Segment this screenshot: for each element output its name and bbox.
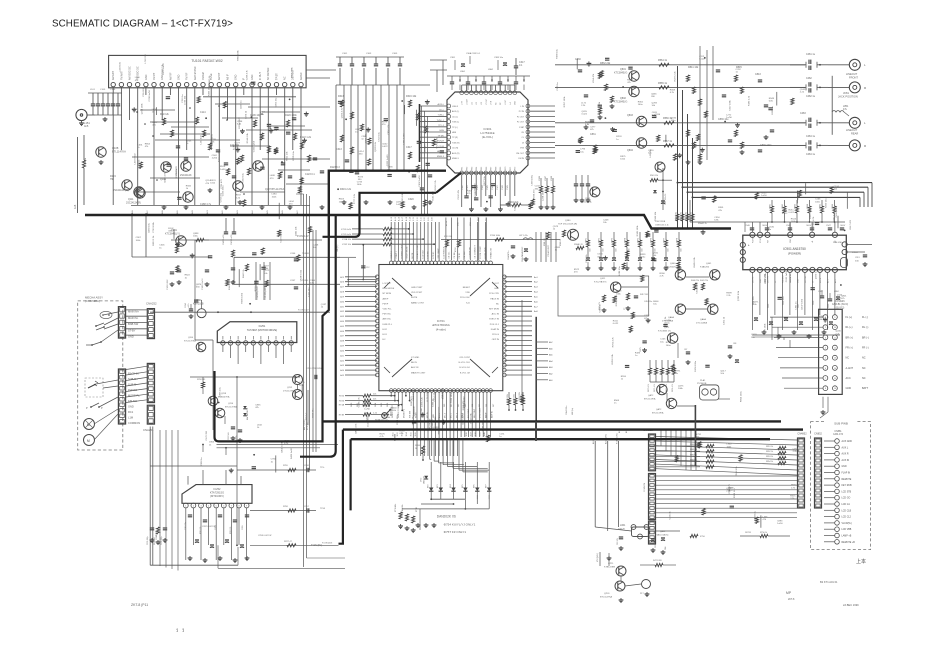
resistor group R86x <box>648 444 714 468</box>
svg-text:C?: C? <box>624 308 626 310</box>
wire left vertical bus <box>296 194 345 567</box>
bus wire x350 drop <box>350 439 352 510</box>
texture left mid 2 <box>208 231 327 309</box>
labels C301 row <box>342 53 398 55</box>
svg-text:L655 1n: L655 1n <box>650 149 652 158</box>
svg-text:TUN-L: TUN-L <box>438 115 445 117</box>
svg-text:367: 367 <box>493 404 495 407</box>
connector CN852 label <box>814 433 822 436</box>
bus wire x343 drop <box>339 430 343 544</box>
svg-text:1: 1 <box>222 343 223 345</box>
svg-text:STAT: STAT <box>519 126 525 129</box>
svg-text:L COM: L COM <box>466 99 468 105</box>
svg-text:COMMON: COMMON <box>644 483 646 492</box>
svg-text:C298 4.7k: C298 4.7k <box>247 69 249 80</box>
svg-text:QA72: QA72 <box>656 408 662 411</box>
svg-text:R978: R978 <box>677 238 679 243</box>
label MP <box>786 591 795 601</box>
svg-text:2SC2412K: 2SC2412K <box>180 174 192 177</box>
svg-text:R564 1k: R564 1k <box>658 59 668 62</box>
cluster left of R75x <box>650 162 707 226</box>
svg-text:GND: GND <box>760 278 762 283</box>
svg-text:361: 361 <box>451 404 453 407</box>
svg-text:AL 1: AL 1 <box>826 279 829 283</box>
label P-ON <box>311 544 322 547</box>
svg-text:GND: GND <box>494 288 499 290</box>
svg-text:R973: R973 <box>612 238 614 243</box>
svg-text:Q400: Q400 <box>670 263 676 265</box>
svg-text:C436 1u/50: C436 1u/50 <box>836 205 838 217</box>
svg-text:Q204: Q204 <box>188 337 194 339</box>
label uploads <box>856 558 866 565</box>
svg-text:Q258: Q258 <box>221 393 227 395</box>
tuner TU101 pin labels <box>112 66 303 80</box>
svg-text:C934 100u: C934 100u <box>451 392 453 403</box>
svg-text:K755 6x2k: K755 6x2k <box>341 229 352 231</box>
svg-text:C182 0.022: C182 0.022 <box>167 279 169 290</box>
svg-text:R971: R971 <box>586 238 588 243</box>
bus wire left step <box>215 237 329 442</box>
svg-text:RT3B: RT3B <box>416 506 418 512</box>
labels tuner net names <box>131 209 299 214</box>
svg-text:C951 330: C951 330 <box>442 388 444 398</box>
svg-text:C301: C301 <box>342 53 348 55</box>
wire EVOL input risers <box>422 106 428 214</box>
svg-text:R122 1.2k: R122 1.2k <box>300 136 312 139</box>
svg-text:(MTR-DRV): (MTR-DRV) <box>210 494 224 498</box>
wire MCU left stubs <box>345 277 377 375</box>
svg-text:GND PORT: GND PORT <box>411 287 423 289</box>
svg-text:LT OUT: LT OUT <box>486 98 488 105</box>
svg-text:R120 100k: R120 100k <box>285 114 297 117</box>
svg-text:C980 2.2k: C980 2.2k <box>162 63 164 74</box>
svg-text:366: 366 <box>486 404 488 407</box>
svg-text:4: 4 <box>825 348 826 350</box>
svg-text:RT64 100k: RT64 100k <box>490 235 501 237</box>
ground antenna <box>79 121 84 126</box>
svg-text:C484 1u: C484 1u <box>806 135 816 138</box>
svg-text:SCHEMATIC DIAGRAM – 1<CT-FX71: SCHEMATIC DIAGRAM – 1<CT-FX719> <box>52 19 233 30</box>
svg-text:C482: C482 <box>806 77 812 80</box>
svg-text:Q401: Q401 <box>706 263 712 265</box>
svg-text:100u: 100u <box>638 104 644 106</box>
svg-text:DTA124 (BLK): DTA124 (BLK) <box>655 533 669 536</box>
svg-text:AA6: AA6 <box>549 347 553 350</box>
svg-text:C481 1u: C481 1u <box>806 53 816 56</box>
svg-text:R611 100k: R611 100k <box>291 66 293 77</box>
svg-text:ST-BY: ST-BY <box>760 237 762 243</box>
svg-text:RT9B 100k: RT9B 100k <box>507 394 509 403</box>
svg-text:C383 10u: C383 10u <box>494 57 504 59</box>
svg-text:M?4 (W5V): M?4 (W5V) <box>597 553 599 562</box>
svg-text:OFF LAMP: OFF LAMP <box>437 248 440 259</box>
capacitor group C87x <box>684 343 739 365</box>
svg-text:DR735: DR735 <box>745 532 751 534</box>
wire IC252 pin drops <box>186 508 247 560</box>
svg-text:R977: R977 <box>664 238 666 243</box>
svg-text:IC901 AN15750: IC901 AN15750 <box>783 247 806 251</box>
wire diode fanout staircase <box>430 441 490 488</box>
svg-text:3638: 3638 <box>475 432 477 436</box>
svg-text:KP5: KP5 <box>462 484 464 488</box>
svg-text:EO2: EO2 <box>383 329 388 331</box>
svg-text:RC5 TuT: RC5 TuT <box>306 412 308 420</box>
antenna filter labels <box>90 89 116 91</box>
svg-text:CE CL2: CE CL2 <box>464 251 466 259</box>
svg-text:NT MON: NT MON <box>383 293 392 295</box>
svg-text:R524 10k: R524 10k <box>736 466 738 476</box>
svg-text:AM IF: AM IF <box>383 297 389 300</box>
connector CAM-B outline <box>819 309 843 394</box>
connector CN4852 strip <box>798 438 805 508</box>
svg-text:C575 1u/50: C575 1u/50 <box>437 136 439 148</box>
svg-text:R227 47: R227 47 <box>284 541 293 543</box>
svg-text:R854 100u: R854 100u <box>741 391 743 402</box>
svg-text:E-VOL GO: E-VOL GO <box>460 367 471 369</box>
svg-text:P5TB61B: P5TB61B <box>697 383 707 385</box>
svg-text:R784: R784 <box>415 445 421 447</box>
transistor Q258 <box>208 393 230 406</box>
svg-text:TP-R: TP-R <box>320 508 326 510</box>
svg-text:AM ANT: AM ANT <box>112 71 115 80</box>
connector CN852 strip <box>815 438 822 508</box>
svg-text:VLCD(5v): VLCD(5v) <box>842 523 852 525</box>
svg-text:L1M: L1M <box>128 416 133 420</box>
transistor Q201 <box>165 229 186 246</box>
svg-text:C344 10k: C344 10k <box>655 211 657 221</box>
svg-text:CD-R: CD-R <box>439 146 445 148</box>
svg-text:+/47u: +/47u <box>188 303 190 308</box>
capacitor C204 <box>185 303 193 318</box>
capacitor texture right-top <box>578 70 774 152</box>
svg-text:R996 100k: R996 100k <box>242 292 244 303</box>
connector CN881 pins and labels <box>824 439 855 544</box>
wire tuner area rails <box>135 104 310 192</box>
svg-text:9: 9 <box>283 343 284 345</box>
svg-text:FM IF: FM IF <box>383 303 389 305</box>
svg-text:TP (R): TP (R) <box>452 137 458 139</box>
svg-text:R854 1k: R854 1k <box>766 461 773 463</box>
svg-text:R64: R64 <box>476 167 478 170</box>
wire IC901 bottom fanout <box>752 273 840 336</box>
svg-text:OUT FR: OUT FR <box>767 276 769 283</box>
svg-text:A15: A15 <box>74 204 77 209</box>
svg-text:R440 72k: R440 72k <box>691 280 699 282</box>
svg-text:TUN (R): TUN (R) <box>452 142 460 144</box>
svg-text:AUX (R): AUX (R) <box>452 152 460 155</box>
antenna filter cluster <box>88 93 122 115</box>
svg-text:3615: 3615 <box>411 432 413 436</box>
svg-text:C240 1n/50: C240 1n/50 <box>223 234 225 245</box>
svg-text:R975: R975 <box>638 238 640 243</box>
svg-text:MTL CONT: MTL CONT <box>480 407 482 418</box>
label common mid <box>644 483 646 492</box>
bus wire lower horizontal3 <box>351 438 770 440</box>
transistor group Q801-Q804 <box>629 71 647 148</box>
svg-text:L718 330: L718 330 <box>145 53 147 63</box>
labels MCU left A-bus <box>340 276 345 377</box>
svg-text:C479 470: C479 470 <box>425 143 427 153</box>
transistor QP02 <box>600 580 651 599</box>
svg-text:NC: NC <box>862 367 866 370</box>
svg-text:3615: 3615 <box>381 403 383 407</box>
svg-text:CNA252: CNA252 <box>146 302 157 306</box>
svg-text:C105: C105 <box>100 89 106 91</box>
svg-text:FM OSC: FM OSC <box>383 314 392 316</box>
svg-text:15: 15 <box>834 378 836 380</box>
svg-text:LCD GO: LCD GO <box>842 498 851 500</box>
E-VOL IC301 inner labels <box>452 98 525 170</box>
svg-text:R211 10k: R211 10k <box>286 151 288 161</box>
capacitor C875 <box>640 341 647 353</box>
svg-text:GND: GND <box>797 278 799 283</box>
svg-text:C137 100k: C137 100k <box>764 323 766 334</box>
svg-text:3616: 3616 <box>415 432 417 436</box>
svg-text:TUN L1: TUN L1 <box>436 120 444 122</box>
svg-text:R345 100k: R345 100k <box>637 225 639 236</box>
wire vertical drops to tuner area <box>336 85 404 170</box>
svg-text:C12: C12 <box>366 267 369 269</box>
svg-text:R70: R70 <box>505 167 507 170</box>
wire E-VOL bottom fanout <box>462 175 515 212</box>
svg-text:A.10: A.10 <box>390 217 393 221</box>
svg-text:DWE PLL: DWE PLL <box>383 324 393 326</box>
svg-text:9: 9 <box>834 317 835 319</box>
svg-text:C220 1n: C220 1n <box>557 82 559 91</box>
svg-text:LINEOUT: LINEOUT <box>846 72 858 76</box>
svg-text:C830: C830 <box>575 58 581 61</box>
svg-text:R757 10k: R757 10k <box>680 212 682 220</box>
svg-text:/100V: /100V <box>840 225 846 227</box>
svg-text:L3A2: L3A2 <box>488 68 494 71</box>
svg-text:Q371 470: Q371 470 <box>366 411 368 421</box>
svg-text:M11: M11 <box>458 222 460 226</box>
svg-text:A.16: A.16 <box>398 217 401 221</box>
svg-text:10: 10 <box>290 343 292 345</box>
svg-text:LINEOUT: LINEOUT <box>846 128 858 132</box>
svg-text:C751 470: C751 470 <box>221 179 223 189</box>
svg-text:C884: C884 <box>834 291 839 293</box>
svg-text:11: 11 <box>834 337 836 339</box>
svg-text:RT3B 100k: RT3B 100k <box>402 505 404 514</box>
svg-text:365: 365 <box>479 404 481 407</box>
MCU IC701 pins <box>375 261 506 392</box>
connector mecha lower <box>118 369 125 424</box>
svg-text:K742 10k: K742 10k <box>342 244 352 246</box>
svg-text:(4-side): (4-side) <box>436 328 446 332</box>
motor M1 <box>100 311 112 318</box>
svg-text:100u: 100u <box>666 345 672 347</box>
svg-text:C913: C913 <box>855 257 860 259</box>
svg-text:C482 1u: C482 1u <box>806 95 816 98</box>
MCU pin name texts <box>383 283 500 374</box>
svg-text:VSS: VSS <box>520 148 525 150</box>
svg-text:TU101 FAE347-W02: TU101 FAE347-W02 <box>191 59 222 63</box>
svg-text:CONT 1: CONT 1 <box>396 250 398 258</box>
texture tuner top <box>119 49 293 84</box>
svg-text:KT61 10k: KT61 10k <box>444 236 452 238</box>
svg-text:E-VOL CE: E-VOL CE <box>460 372 471 374</box>
svg-text:R756 10k: R756 10k <box>685 212 687 220</box>
texture ic901 below <box>751 268 847 339</box>
svg-text:AM/AC: AM/AC <box>300 72 303 80</box>
svg-text:R607: R607 <box>545 176 547 181</box>
svg-text:DAN202K X6: DAN202K X6 <box>437 515 456 519</box>
inductor L851 <box>832 105 849 116</box>
svg-text:R117 470: R117 470 <box>850 219 852 229</box>
svg-text:RL (+): RL (+) <box>846 326 853 329</box>
svg-text:362: 362 <box>458 404 460 407</box>
wire EVOL to MCU verticals <box>445 218 487 261</box>
svg-text:X-OUT: X-OUT <box>492 283 499 285</box>
svg-text:3611: 3611 <box>393 432 395 436</box>
svg-text:R111 0.022: R111 0.022 <box>219 150 221 162</box>
svg-text:Q107 BTL1147KA: Q107 BTL1147KA <box>265 188 285 191</box>
svg-text:FR (+): FR (+) <box>846 347 853 350</box>
svg-text:L958 100u: L958 100u <box>532 174 534 185</box>
svg-text:Q441 10k: Q441 10k <box>295 226 297 236</box>
capacitor group C481-C484 <box>790 60 828 151</box>
svg-text:AM RF: AM RF <box>169 72 172 80</box>
svg-text:PL OUT: PL OUT <box>517 116 525 118</box>
svg-text:L892 470: L892 470 <box>765 273 767 283</box>
svg-text:R961 1k: R961 1k <box>790 273 792 282</box>
svg-text:RT34: RT34 <box>339 396 345 398</box>
dashed sub box <box>85 378 103 397</box>
svg-text:3.11: 3.11 <box>421 217 423 221</box>
switch contacts P <box>86 403 103 410</box>
resistor group Q411 <box>599 293 652 313</box>
svg-text:FM IN: FM IN <box>519 158 525 160</box>
svg-text:MSEL3: MSEL3 <box>437 156 445 158</box>
svg-text:LCD CL2: LCD CL2 <box>842 517 852 519</box>
svg-text:R668 10u: R668 10u <box>556 48 558 58</box>
connector CNA252 low <box>147 405 154 424</box>
texture pre-evol 2 <box>337 101 430 209</box>
svg-text:PRE GND: PRE GND <box>833 242 843 244</box>
svg-text:A1.10: A1.10 <box>445 221 448 226</box>
labels MCU bottom nets <box>351 403 495 407</box>
svg-text:AUX L: AUX L <box>842 446 849 449</box>
svg-text:Q252: Q252 <box>287 387 293 389</box>
svg-text:NC: NC <box>862 357 866 360</box>
svg-text:Q537 100k: Q537 100k <box>801 298 803 310</box>
svg-text:R319 2.2k: R319 2.2k <box>340 188 352 191</box>
svg-text:2SC2412K (R): 2SC2412K (R) <box>113 189 129 192</box>
svg-text:3: 3 <box>238 343 239 345</box>
svg-text:3640: 3640 <box>484 432 486 436</box>
capacitor group below IC252 <box>188 515 250 563</box>
svg-text:CE K1: CE K1 <box>459 252 461 259</box>
svg-text:FL (+): FL (+) <box>846 316 853 319</box>
svg-text:MUTE: MUTE <box>411 297 418 299</box>
svg-text:13: 13 <box>834 358 836 360</box>
svg-text:R870 4.7k: R870 4.7k <box>648 384 650 392</box>
wire TUN-R line <box>234 253 340 261</box>
svg-text:MUTE: MUTE <box>820 277 822 283</box>
svg-text:Q238 1n: Q238 1n <box>241 100 243 109</box>
svg-text:14: 14 <box>834 368 836 370</box>
svg-text:C484 1u: C484 1u <box>806 153 816 156</box>
svg-text:C544 0.022: C544 0.022 <box>548 245 550 257</box>
transistor Q252 <box>283 368 322 425</box>
svg-text:E-VOL CLK: E-VOL CLK <box>459 362 471 364</box>
wire power verticals <box>592 430 628 527</box>
svg-text:FM VT: FM VT <box>153 72 156 80</box>
svg-text:R236 0.022: R236 0.022 <box>239 117 241 129</box>
svg-text:3639: 3639 <box>480 432 482 436</box>
svg-text:R567 1k: R567 1k <box>663 140 673 143</box>
svg-text:DTC114EA: DTC114EA <box>696 321 707 324</box>
svg-text:R115 1k: R115 1k <box>85 157 87 166</box>
labels pre-EVOL <box>336 95 422 201</box>
svg-text:R313: R313 <box>338 95 344 98</box>
svg-text:AUX IN: AUX IN <box>411 366 419 369</box>
wire IC901 top stubs <box>752 222 835 232</box>
svg-text:R113 2k: R113 2k <box>160 113 170 116</box>
svg-text:AA2: AA2 <box>549 373 553 376</box>
wire lineout runs <box>555 65 805 146</box>
svg-text:LOC/DX: LOC/DX <box>383 283 392 285</box>
capacitor group LIM1 <box>617 537 667 555</box>
labels mecha lower <box>128 372 140 426</box>
svg-text:GND: GND <box>235 74 238 80</box>
transistor Q411 <box>594 278 621 292</box>
junction dots tuner area <box>136 105 283 195</box>
svg-text:/016: /016 <box>855 260 859 262</box>
svg-text:C204: C204 <box>185 303 187 308</box>
svg-text:2SC2412K(R): 2SC2412K(R) <box>126 201 141 204</box>
svg-text:LCD STB/CE: LCD STB/CE <box>443 246 445 258</box>
svg-text:EC: EC <box>383 339 386 341</box>
svg-text:FM/AM: FM/AM <box>202 72 205 80</box>
svg-text:R976: R976 <box>651 238 653 243</box>
wire tuner to EVOL <box>306 60 447 92</box>
connector CNA852 mid strip3 <box>649 521 656 544</box>
svg-text:AUX-L: AUX-L <box>438 103 445 106</box>
svg-text:EO1: EO1 <box>383 334 388 336</box>
optocoupler PLA1 <box>697 379 719 400</box>
svg-text:R963: R963 <box>795 204 797 209</box>
wire diode row bottom <box>402 495 489 510</box>
svg-text:R966: R966 <box>832 204 834 209</box>
wire E-VOL right outputs <box>530 106 555 158</box>
svg-text:Q936 10u: Q936 10u <box>412 415 414 425</box>
svg-text:C364 4.7k: C364 4.7k <box>813 216 815 227</box>
transistor Q256 <box>215 403 237 418</box>
svg-text:COMMON: COMMON <box>128 421 140 425</box>
svg-text:L8B (CL): L8B (CL) <box>337 244 339 252</box>
E-VOL IC IC301 label <box>480 127 494 139</box>
svg-text:Q912 4.7k: Q912 4.7k <box>164 172 166 183</box>
svg-text:AM OSC: AM OSC <box>383 318 392 321</box>
transistor Q380 <box>558 220 579 240</box>
svg-text:R69: R69 <box>500 167 502 170</box>
svg-text:IC251: IC251 <box>259 325 266 328</box>
svg-text:C956 100u: C956 100u <box>783 296 785 305</box>
svg-text:R986 1k: R986 1k <box>560 239 562 246</box>
svg-text:TUN (L): TUN (L) <box>452 122 459 124</box>
svg-text:L361 1k: L361 1k <box>724 316 726 325</box>
wire rail2 <box>132 213 209 257</box>
svg-text:TDF 2SC2412K (R): TDF 2SC2412K (R) <box>558 223 577 225</box>
svg-text:L IN: L IN <box>520 106 524 108</box>
svg-text:BAND CONT: BAND CONT <box>411 301 425 304</box>
svg-text:C188 10u/16: C188 10u/16 <box>202 278 204 290</box>
transistor Q871 <box>658 327 678 343</box>
svg-text:8: 8 <box>825 388 826 390</box>
svg-text:/100: /100 <box>603 249 605 253</box>
